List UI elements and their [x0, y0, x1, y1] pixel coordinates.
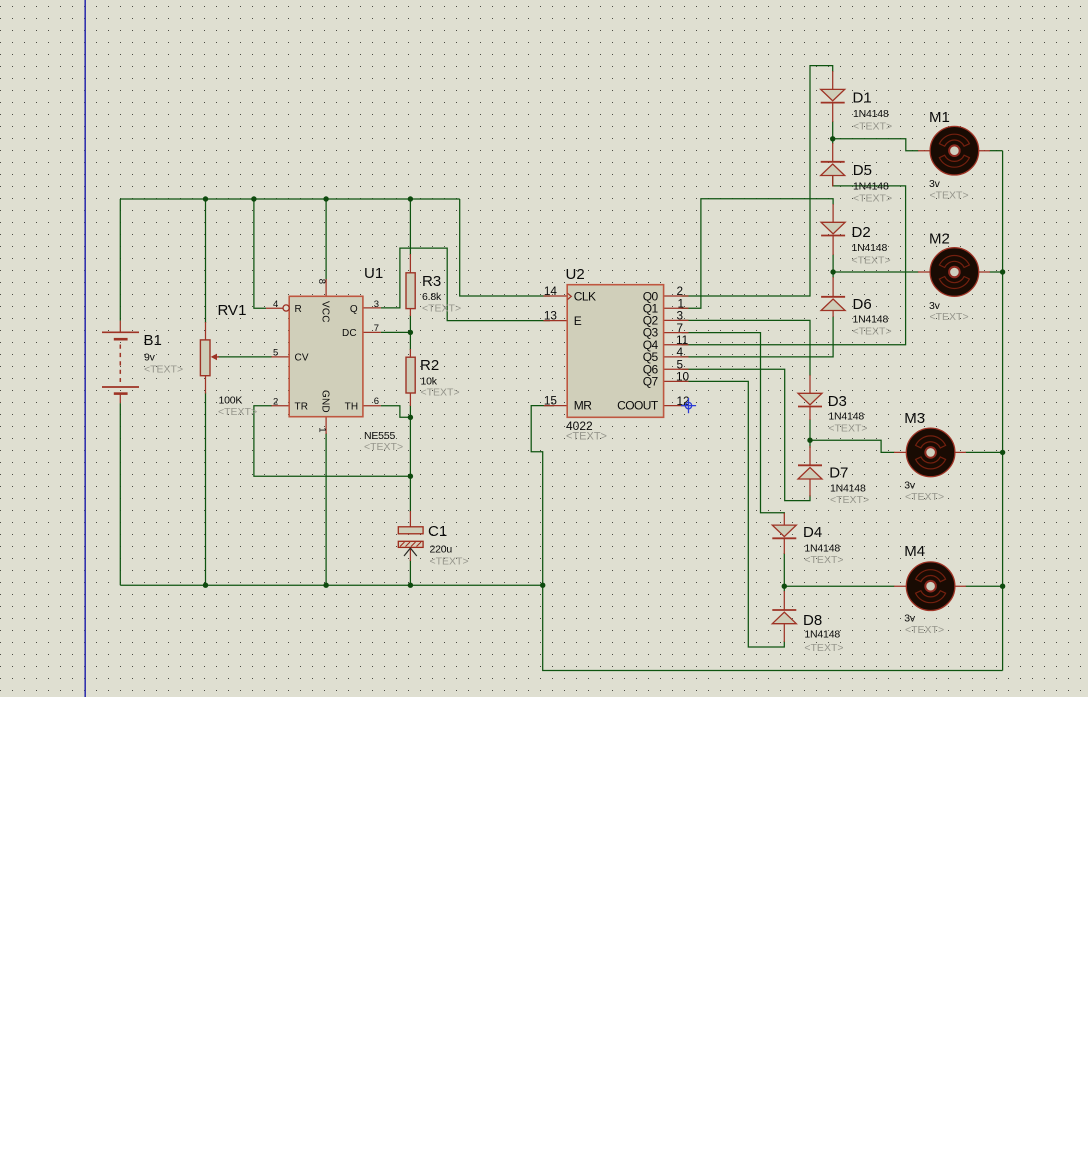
U1 pin 6 stub: [363, 405, 381, 407]
wire C1 bottom to GND rail: [409, 560, 411, 585]
wire U2 Q7 to D8 anode: [682, 381, 785, 647]
U1 labels: [364, 265, 403, 453]
svg-text:<TEXT>: <TEXT>: [364, 441, 403, 453]
wire U1 DC to R3/R2 node: [381, 331, 411, 333]
D6 labels: [853, 296, 892, 338]
node rail/M4: [1000, 584, 1005, 589]
wire D1 cathode junction: [832, 121, 834, 144]
M3 labels: [904, 410, 944, 503]
D5 stubs: [832, 143, 834, 187]
wire M3 right to rail: [966, 451, 1003, 453]
svg-text:3v: 3v: [929, 178, 941, 190]
R2 stubs: [409, 349, 411, 406]
svg-text:14: 14: [544, 284, 558, 298]
RV1 leads: [205, 322, 207, 394]
R3 stubs: [409, 254, 411, 316]
node D4/D8/M4: [782, 584, 787, 589]
svg-text:1N4148: 1N4148: [853, 181, 889, 193]
svg-text:B1: B1: [144, 332, 162, 349]
svg-text:<TEXT>: <TEXT>: [804, 554, 843, 566]
svg-text:1N4148: 1N4148: [830, 483, 866, 495]
svg-text:TH: TH: [345, 402, 359, 413]
wire M4 node to motor: [784, 585, 894, 587]
node D3/D7/M3: [807, 438, 812, 443]
U1 pin 5 stub: [271, 356, 289, 358]
wire RV1 wiper to U1 CV: [218, 356, 272, 358]
svg-text:3v: 3v: [904, 613, 916, 625]
U1 pin 4 stub: [266, 307, 283, 309]
svg-text:<TEXT>: <TEXT>: [422, 303, 461, 315]
counter U2 4022 body: [567, 285, 663, 418]
svg-text:9v: 9v: [144, 352, 156, 364]
svg-text:TR: TR: [295, 402, 309, 413]
wire M4 right to rail: [966, 585, 1003, 587]
node gnd/MR: [540, 583, 545, 588]
D3 labels: [828, 393, 868, 435]
node gnd/RV1: [203, 583, 208, 588]
wire U2 Q1 to D2: [682, 199, 834, 308]
D1 labels: [853, 90, 893, 133]
node D2/D6/M2: [830, 269, 835, 274]
svg-text:5: 5: [273, 348, 278, 359]
D3 stubs: [809, 375, 811, 420]
svg-text:<TEXT>: <TEXT>: [905, 624, 944, 636]
svg-text:RV1: RV1: [218, 302, 247, 319]
U1 pin 7 stub: [363, 331, 381, 333]
D8 stubs: [783, 591, 785, 642]
svg-text:2: 2: [273, 397, 278, 408]
U1 pin 8 stub: [325, 279, 327, 296]
U2 left pin stubs 14 13 15: [543, 296, 567, 406]
node rail/VCC: [323, 196, 328, 201]
R3 labels: [422, 273, 461, 315]
motor M2: [930, 248, 979, 297]
wire GND bottom rail: [120, 584, 542, 586]
wire U2 Q5 to D6 anode: [682, 316, 834, 357]
svg-text:D6: D6: [853, 296, 872, 313]
svg-text:R2: R2: [420, 357, 439, 374]
svg-text:M3: M3: [904, 410, 925, 427]
battery B1 leads: [119, 321, 121, 403]
wire U2 Q3 to D4: [682, 333, 785, 514]
svg-text:R: R: [295, 304, 302, 315]
C1 labels: [428, 523, 469, 568]
svg-text:1N4148: 1N4148: [804, 543, 840, 555]
wire U1 Q to U2 E: [381, 248, 550, 321]
sheet border blue line: [84, 0, 86, 697]
node rail/RV1: [203, 196, 208, 201]
wire U2 MR to GND net: [531, 406, 554, 586]
svg-text:<TEXT>: <TEXT>: [804, 642, 843, 654]
wire U2 Q0 to D1: [682, 66, 833, 296]
U1 pin numbers: [273, 279, 379, 433]
U1 pin names: [295, 301, 359, 413]
wire U1 VCC pin8 to rail: [325, 199, 327, 280]
node DC/R3/R2: [408, 330, 413, 335]
M1 leads: [918, 150, 990, 152]
svg-text:M2: M2: [929, 231, 950, 248]
wire M2 right to rail: [990, 271, 1003, 273]
wire rail to U2 CLK: [460, 199, 550, 296]
svg-text:<TEXT>: <TEXT>: [421, 387, 460, 399]
wire battery top lead: [119, 199, 121, 321]
wire U1 TR loop to C1 node: [254, 406, 411, 476]
diode D2 (down): [821, 222, 845, 235]
svg-text:8: 8: [316, 279, 327, 284]
op-amp U1 NE555 body: [283, 296, 363, 416]
svg-text:6.8k: 6.8k: [422, 291, 442, 303]
svg-text:Q7: Q7: [643, 375, 659, 389]
wire RV1 top: [205, 199, 207, 323]
node rail/M2: [1000, 269, 1005, 274]
M4 leads: [894, 585, 966, 587]
node gnd/C1: [408, 583, 413, 588]
node gnd/U1: [323, 583, 328, 588]
wire VCC top rail: [120, 198, 459, 200]
diode D6 (up): [821, 297, 845, 311]
svg-text:15: 15: [544, 394, 558, 408]
D4 labels: [803, 524, 844, 566]
motor M4: [906, 562, 955, 611]
svg-text:<TEXT>: <TEXT>: [930, 190, 969, 202]
D4 stubs: [783, 513, 785, 554]
resistor R3: [406, 273, 415, 309]
U1 pin 2 stub: [271, 405, 289, 407]
wire U1 TH to R2 bottom node: [381, 406, 411, 418]
svg-text:1N4148: 1N4148: [852, 242, 888, 254]
wire M1 right to rail: [990, 150, 1003, 152]
U1 pin 3 stub: [363, 307, 381, 309]
svg-text:<TEXT>: <TEXT>: [144, 364, 183, 376]
wire U2 Q4 loop to D5 anode: [682, 176, 906, 345]
wire D3 cathode node: [809, 419, 811, 448]
svg-text:C1: C1: [428, 523, 447, 540]
svg-text:Q: Q: [350, 304, 358, 315]
diode D4 (down): [772, 525, 796, 538]
svg-text:<TEXT>: <TEXT>: [905, 491, 944, 503]
wire battery bottom lead: [119, 403, 121, 585]
canvas background: [0, 0, 1088, 697]
wire U1 reset pin4 to rail: [254, 199, 266, 308]
B1 labels: [144, 332, 184, 376]
battery B1: [102, 332, 139, 393]
svg-text:CV: CV: [295, 353, 309, 364]
diode D5 (up): [821, 162, 845, 176]
U2 right pin stubs: [664, 296, 689, 406]
wire D1/D5 node to M1: [833, 139, 919, 151]
svg-text:6: 6: [374, 396, 379, 407]
D5 labels: [853, 162, 892, 204]
wire R3/R2 node to R2 top: [409, 332, 411, 350]
RV1 labels: [218, 302, 258, 418]
diode D7 (up): [798, 465, 822, 479]
motor M1: [930, 126, 979, 175]
node rail/M3: [1000, 450, 1005, 455]
M2 labels: [929, 231, 969, 324]
svg-text:D7: D7: [829, 465, 848, 482]
U1 pin 1 stub: [325, 417, 327, 434]
svg-text:<TEXT>: <TEXT>: [853, 192, 892, 204]
node TR/C1: [408, 474, 413, 479]
svg-text:<TEXT>: <TEXT>: [430, 556, 469, 568]
U2 pin numbers: [544, 284, 690, 408]
potentiometer RV1: [200, 340, 219, 376]
svg-text:M4: M4: [904, 543, 925, 560]
diode D8 (up): [772, 610, 796, 624]
svg-text:<TEXT>: <TEXT>: [828, 423, 867, 435]
svg-text:U2: U2: [566, 266, 585, 283]
svg-text:MR: MR: [574, 399, 592, 413]
svg-text:D8: D8: [803, 612, 822, 629]
svg-text:220u: 220u: [430, 544, 453, 556]
svg-text:<TEXT>: <TEXT>: [830, 494, 869, 506]
svg-text:GND: GND: [320, 390, 331, 413]
svg-text:<TEXT>: <TEXT>: [853, 326, 892, 338]
M3 leads: [894, 451, 966, 453]
svg-text:1: 1: [317, 427, 328, 432]
svg-text:100K: 100K: [219, 395, 243, 407]
wire U1 GND pin1 down: [325, 433, 327, 585]
node rail/R3: [408, 196, 413, 201]
svg-text:1N4148: 1N4148: [804, 629, 840, 641]
D6 stubs: [832, 277, 834, 317]
svg-text:13: 13: [544, 309, 558, 323]
node TH/R2: [408, 415, 413, 420]
R2 labels: [420, 357, 460, 399]
D2 stubs: [832, 204, 834, 255]
svg-text:R3: R3: [422, 273, 441, 290]
wire right rail: [1002, 151, 1004, 671]
wire R3 top to rail: [409, 199, 411, 255]
svg-text:VCC: VCC: [320, 301, 331, 323]
wire U2 Q2 to D3: [682, 320, 810, 376]
svg-text:1N4148: 1N4148: [853, 108, 889, 120]
svg-text:1N4148: 1N4148: [828, 411, 864, 423]
svg-text:COOUT: COOUT: [617, 399, 659, 413]
svg-text:D4: D4: [803, 524, 822, 541]
svg-text:10: 10: [676, 370, 690, 384]
svg-text:<TEXT>: <TEXT>: [218, 406, 257, 418]
diode D1 (down): [821, 89, 845, 102]
svg-text:<TEXT>: <TEXT>: [852, 255, 891, 267]
wire RV1 bottom: [205, 393, 207, 586]
svg-text:<TEXT>: <TEXT>: [930, 311, 969, 323]
wire U2 Q6 to D7 anode: [682, 369, 810, 500]
cursor marker at pin 12: [681, 398, 696, 413]
M1 labels: [929, 109, 969, 202]
D1 stubs: [832, 71, 834, 122]
U2 labels: [566, 266, 607, 443]
node D1/D5/M1: [830, 136, 835, 141]
D7 labels: [829, 465, 869, 507]
svg-text:<TEXT>: <TEXT>: [566, 431, 607, 443]
wire M2 node to motor: [833, 271, 918, 273]
svg-text:D3: D3: [828, 393, 847, 410]
M2 leads: [918, 271, 990, 273]
svg-text:D1: D1: [853, 90, 872, 107]
svg-text:<TEXT>: <TEXT>: [853, 120, 892, 132]
resistor R2: [406, 357, 415, 393]
wire D2 cathode to M2 node: [832, 254, 834, 278]
D7 stubs: [809, 446, 811, 497]
svg-text:D2: D2: [852, 224, 871, 241]
svg-text:7: 7: [374, 323, 379, 334]
svg-text:D5: D5: [853, 162, 872, 179]
svg-text:E: E: [574, 314, 582, 328]
wire R2 bottom to C1 top: [409, 405, 411, 512]
svg-text:1N4148: 1N4148: [853, 314, 889, 326]
M4 labels: [904, 543, 944, 636]
svg-text:3: 3: [374, 299, 379, 310]
svg-text:DC: DC: [342, 328, 357, 339]
wire bottom return: [543, 585, 1003, 670]
C1 stubs: [409, 511, 411, 561]
D8 labels: [803, 612, 844, 654]
capacitor C1 electrolytic: [398, 527, 423, 556]
svg-text:CLK: CLK: [574, 289, 596, 303]
wire R3 bottom: [409, 315, 411, 332]
wire D4 cathode node: [783, 553, 785, 592]
svg-text:U1: U1: [364, 265, 383, 282]
diode D3 (down): [798, 393, 822, 406]
motor M3: [906, 428, 955, 477]
wire D3/D7 node to M3: [810, 440, 895, 452]
D2 labels: [852, 224, 891, 267]
svg-text:4: 4: [273, 299, 278, 310]
node rail/pin4: [251, 196, 256, 201]
U2 pin names: [574, 289, 659, 412]
svg-text:M1: M1: [929, 109, 950, 126]
